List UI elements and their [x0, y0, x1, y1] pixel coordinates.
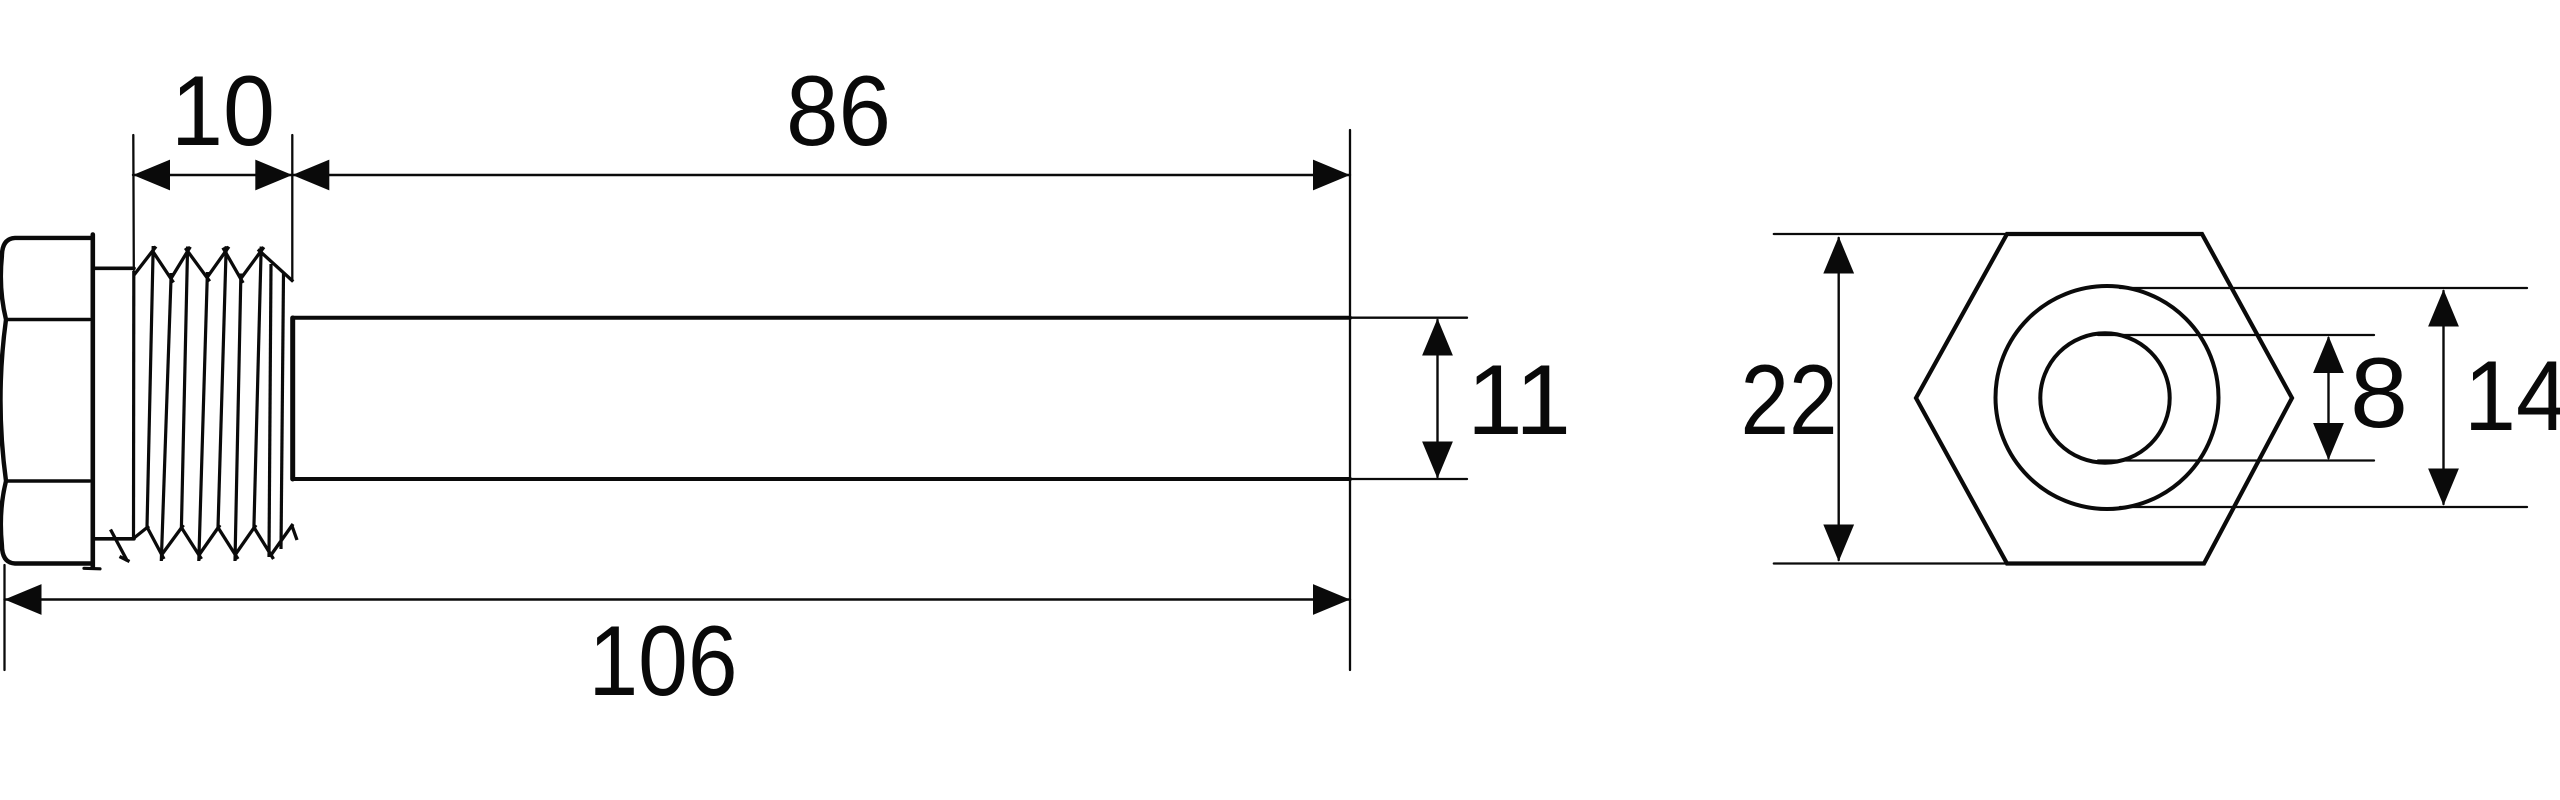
thread flank lines — [134, 246, 284, 561]
dim 8 arrow line — [2327, 338, 2329, 458]
dim 22 arrow line — [1837, 238, 1839, 560]
dim 11 extension bottom — [1350, 478, 1467, 480]
dim 11 extension top — [1350, 317, 1467, 319]
dim 8 extension top — [2098, 334, 2374, 336]
shaft bottom line — [293, 477, 1351, 481]
arrowhead dim8 top — [2313, 336, 2344, 373]
extension line for dim 10 left — [132, 135, 135, 270]
svg-text:14: 14 — [2464, 340, 2560, 451]
hex head face line upper — [6, 318, 90, 322]
svg-text:22: 22 — [1741, 344, 1838, 455]
hex head bottom corner tick — [84, 567, 100, 571]
thread top zigzag — [134, 247, 293, 283]
arrowhead dim86 left — [292, 160, 329, 191]
hex head face line lower — [6, 479, 90, 483]
dimension line 10 — [133, 174, 292, 176]
svg-text:11: 11 — [1467, 344, 1571, 455]
dimension line 86 — [292, 174, 1350, 176]
arrowhead dim86 right — [1313, 160, 1350, 191]
svg-text:8: 8 — [2350, 337, 2408, 448]
dim 22 extension bottom — [1774, 562, 2007, 564]
arrowhead dim10 left — [133, 160, 170, 191]
shaft end edge at thread — [290, 318, 295, 479]
arrowhead dim10 right — [255, 160, 292, 191]
arrowhead dim106 right — [1313, 584, 1350, 615]
hexagon end view — [1916, 234, 2292, 564]
dim 14 extension bottom — [2120, 506, 2527, 508]
arrowhead dim8 bottom — [2313, 423, 2344, 460]
arrowhead dim106 left — [5, 584, 42, 615]
shaft top line — [293, 316, 1351, 320]
svg-text:86: 86 — [786, 55, 891, 166]
dim 14 extension top — [2120, 287, 2527, 289]
svg-text:106: 106 — [589, 605, 738, 716]
inner circle dia 8 — [2040, 333, 2169, 462]
washer bottom line — [93, 537, 134, 541]
arrowhead dim22 top — [1823, 237, 1854, 274]
arrowhead dim11 top — [1422, 319, 1453, 356]
dim 14 arrow line — [2442, 291, 2444, 504]
extension line right at shaft end — [1349, 130, 1351, 670]
svg-text:10: 10 — [171, 55, 275, 166]
dim 11 arrow line — [1436, 320, 1438, 477]
hex head right edge — [91, 235, 96, 568]
dimension line 106 — [5, 598, 1351, 600]
arrowhead dim14 top — [2428, 290, 2459, 327]
hex head silhouette (side view) — [1, 238, 93, 564]
arrowhead dim11 bottom — [1422, 442, 1453, 479]
dim 8 extension bottom — [2098, 459, 2374, 461]
extension line at head left bottom — [3, 565, 5, 670]
dim 22 extension top — [1774, 233, 2007, 235]
extension line for dim 10/86 middle — [291, 135, 293, 281]
outer circle dia 14 — [1996, 286, 2219, 509]
arrowhead dim14 bottom — [2428, 469, 2459, 506]
arrowhead dim22 bottom — [1823, 525, 1854, 562]
thread bottom zigzag — [111, 524, 298, 562]
washer top line — [93, 266, 134, 270]
